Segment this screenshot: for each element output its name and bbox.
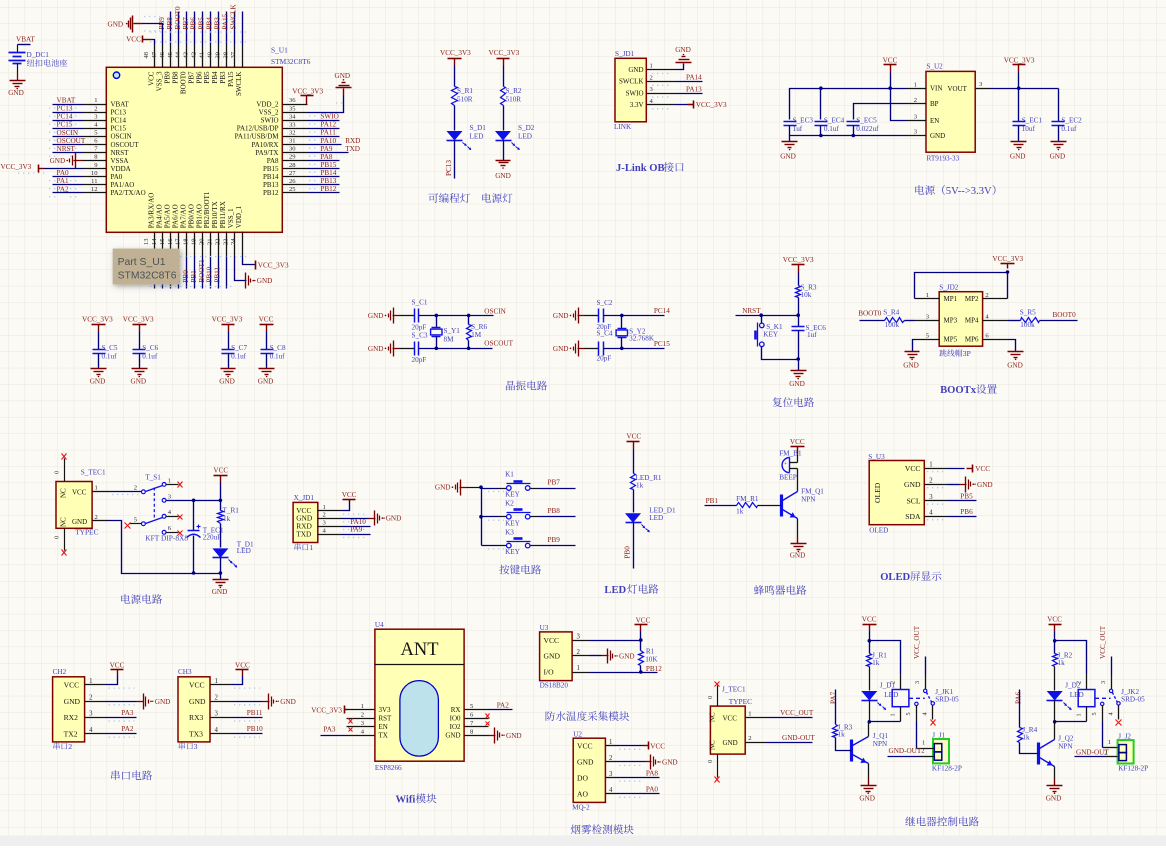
ground right of U4 — [494, 728, 496, 744]
svg-text:VBAT: VBAT — [111, 100, 130, 108]
svg-text:1: 1 — [889, 713, 896, 716]
svg-text:3P: 3P — [963, 349, 972, 358]
CH3 pin 1 VCC — [211, 684, 232, 686]
resistor S_R1 510R — [452, 87, 458, 106]
MCU U1 right pin 25 PB12 — [283, 192, 308, 194]
svg-text:PA0: PA0 — [646, 786, 659, 794]
svg-text:100k: 100k — [1020, 321, 1035, 329]
svg-text:S_C5: S_C5 — [102, 344, 118, 352]
MCU U1 top pin 47 VSS_3 — [162, 45, 164, 68]
U2 pin 4 AO — [606, 793, 617, 795]
S_JD2 pins 1/2 — [915, 298, 940, 300]
svg-text:S_TEC1: S_TEC1 — [81, 468, 106, 476]
wire — [905, 320, 915, 322]
svg-text:GND: GND — [189, 697, 206, 706]
section title 防水温度采集模块 — [546, 711, 555, 721]
svg-text:GND: GND — [628, 66, 643, 74]
J_TEC1 top stub — [717, 686, 719, 707]
svg-text:GND: GND — [335, 72, 351, 80]
svg-text:J-Link OB: J-Link OB — [616, 163, 665, 174]
svg-text:PA8: PA8 — [320, 153, 333, 161]
capacitor T_EC1 220uF polarized — [193, 501, 195, 531]
svg-text:GND: GND — [930, 132, 945, 140]
svg-text:PA11/USB/DM: PA11/USB/DM — [235, 133, 280, 141]
svg-text:S_R1: S_R1 — [457, 87, 473, 95]
wire with net label PA1 — [53, 184, 83, 186]
svg-text:VIN: VIN — [930, 85, 942, 93]
svg-text:VCC: VCC — [342, 491, 357, 499]
ground — [791, 543, 807, 545]
svg-text:SWIO: SWIO — [626, 89, 644, 97]
wire pin4 PA0 — [617, 793, 660, 795]
wire — [226, 257, 228, 289]
svg-text:OLED: OLED — [869, 527, 888, 535]
svg-text:4: 4 — [215, 727, 219, 734]
wire pin2 to GND — [232, 701, 263, 703]
wire — [633, 523, 635, 569]
ground below J_Q1 — [861, 785, 877, 787]
svg-text:3: 3 — [215, 711, 219, 718]
svg-text:RX: RX — [451, 706, 461, 714]
svg-text:T_S1: T_S1 — [145, 474, 161, 482]
svg-text:PA15: PA15 — [221, 13, 229, 29]
svg-text:MP6: MP6 — [965, 336, 979, 344]
svg-text:VCC: VCC — [790, 438, 805, 446]
svg-text:PB3: PB3 — [214, 17, 222, 30]
svg-text:1k: 1k — [1022, 733, 1030, 741]
svg-text:16: 16 — [167, 238, 174, 245]
wire base resistor — [835, 690, 837, 725]
MCU U1 left pin 11 PA1/AO — [83, 184, 107, 186]
wire GND-OUT — [766, 742, 813, 744]
wire contact5 down — [1102, 706, 1104, 722]
svg-text:2: 2 — [889, 681, 896, 684]
svg-text:2: 2 — [1075, 681, 1082, 684]
svg-text:BOOT0: BOOT0 — [174, 6, 182, 30]
wire — [178, 257, 180, 289]
ground right of U3 — [607, 649, 609, 664]
svg-text:SWCLK: SWCLK — [235, 72, 243, 97]
ground — [1011, 141, 1027, 143]
svg-text:LED: LED — [604, 585, 626, 596]
svg-text:0.1uf: 0.1uf — [270, 353, 286, 361]
wire — [226, 12, 228, 45]
svg-text:BOOTx: BOOTx — [940, 385, 977, 396]
wire — [162, 257, 164, 289]
svg-text:GND: GND — [544, 652, 561, 661]
svg-text:GND: GND — [1050, 153, 1066, 161]
svg-text:PB6: PB6 — [190, 17, 198, 30]
wire contact5 down — [916, 706, 918, 722]
svg-text:GND: GND — [1010, 153, 1026, 161]
svg-text:VCC_3V3: VCC_3V3 — [123, 316, 154, 324]
svg-text:5: 5 — [905, 712, 912, 715]
svg-text:GND: GND — [386, 515, 402, 523]
MCU U1 top pin 45 PB8 — [178, 45, 180, 68]
svg-text:S_R5: S_R5 — [1020, 308, 1036, 316]
relay J_JK2 SRD-05 coil — [1086, 674, 1088, 690]
svg-text:PA5/AO: PA5/AO — [164, 204, 172, 228]
svg-text:TXD: TXD — [345, 145, 360, 153]
svg-text:OSCIN: OSCIN — [484, 308, 506, 316]
svg-text:20pF: 20pF — [597, 354, 612, 362]
svg-text:3: 3 — [914, 681, 921, 684]
svg-text:PB10: PB10 — [206, 266, 214, 282]
wire — [220, 483, 222, 501]
svg-text:RXD: RXD — [345, 137, 360, 145]
wire — [210, 12, 212, 45]
svg-text:PB11: PB11 — [214, 266, 222, 282]
svg-text:10: 10 — [91, 170, 98, 177]
wire with net label PB12 — [308, 192, 340, 194]
ground left of S_C1 — [385, 315, 387, 317]
S_U2 pin 3 VOUT — [976, 88, 990, 90]
wire with net label NRST — [53, 152, 83, 154]
svg-text:1: 1 — [361, 703, 364, 710]
svg-text:U4: U4 — [375, 621, 384, 629]
svg-text:PA14: PA14 — [686, 74, 702, 82]
wire — [202, 257, 204, 289]
wire — [789, 126, 791, 136]
wire coil bottom rail — [1055, 721, 1087, 723]
section title 串口电路 — [111, 770, 120, 780]
wire pin1 to VCC — [106, 676, 118, 685]
svg-text:1uf: 1uf — [793, 125, 803, 133]
wire GND rail — [790, 136, 907, 142]
svg-text:510R: 510R — [506, 96, 522, 104]
MCU U1 top pin 41 PB5 — [210, 45, 212, 68]
svg-text:32: 32 — [289, 130, 296, 137]
svg-text:1: 1 — [215, 678, 218, 685]
svg-text:GND: GND — [64, 697, 81, 706]
wire — [798, 273, 800, 286]
LED T_D1 — [220, 524, 222, 548]
ground left of S_C3 — [385, 348, 387, 350]
svg-text:PA12: PA12 — [320, 121, 336, 129]
svg-text:1k: 1k — [872, 659, 880, 667]
svg-text:46: 46 — [159, 51, 166, 58]
X_JD1 pin 1 VCC — [318, 510, 342, 512]
svg-text:OLED: OLED — [873, 482, 882, 503]
MCU U1 bottom pin 17 PA7/AO — [186, 232, 188, 257]
svg-text:VCC: VCC — [213, 467, 228, 475]
wire with net label PA14 — [675, 81, 703, 83]
svg-text:PB5: PB5 — [198, 17, 206, 30]
svg-text:1: 1 — [94, 97, 97, 104]
svg-text:2: 2 — [134, 485, 137, 492]
svg-text:S_U1: S_U1 — [271, 46, 288, 55]
svg-text:PB12: PB12 — [646, 665, 662, 673]
MCU U1 bottom pin 24 VDD_1 — [242, 232, 244, 257]
svg-text:S_C3: S_C3 — [412, 332, 428, 340]
svg-text:AO: AO — [577, 790, 588, 799]
resistor S_R4 100k — [885, 318, 905, 323]
wire VCC_OUT — [925, 657, 927, 675]
svg-text:30: 30 — [289, 146, 296, 153]
svg-text:42: 42 — [191, 52, 198, 59]
J_TEC1 bottom stub — [717, 755, 719, 778]
svg-text:OSCOUT: OSCOUT — [111, 141, 140, 149]
svg-text:GND: GND — [1046, 795, 1062, 803]
svg-text:PA3: PA3 — [121, 709, 134, 717]
wire — [482, 545, 499, 547]
wire — [869, 701, 871, 722]
ground below S_EC3 — [782, 141, 798, 143]
wire EN connection — [891, 89, 907, 121]
svg-text:VCC_3V3: VCC_3V3 — [1004, 56, 1035, 64]
wire — [242, 12, 244, 45]
U4 pin 2 RST — [347, 718, 375, 720]
power VCC right of U2 — [648, 742, 650, 750]
wire pin3 PA3 — [106, 717, 137, 719]
wire with net label SWIO — [308, 120, 340, 122]
capacitor S_C1 20pF — [414, 309, 416, 323]
svg-text:GND: GND — [108, 21, 124, 29]
MCU U1 right pin 28 PB15 — [283, 168, 308, 170]
svg-text:GND: GND — [553, 312, 569, 320]
wire — [139, 332, 141, 350]
ground below MP5 — [905, 351, 920, 353]
resistor S_R3 10k — [796, 286, 801, 298]
svg-text:S_C1: S_C1 — [412, 299, 428, 307]
wire — [860, 320, 885, 322]
svg-text:OSCOUT: OSCOUT — [57, 137, 86, 145]
wire with net label PA13 — [675, 93, 703, 95]
svg-text:VCC: VCC — [883, 56, 898, 64]
ground — [791, 370, 807, 372]
svg-text:PB14: PB14 — [320, 169, 336, 177]
push button K3 KEY — [507, 543, 512, 548]
CH2 pin 2 GND — [85, 701, 106, 703]
svg-text:PB12: PB12 — [320, 185, 336, 193]
capacitor S_C3 20pF — [414, 342, 416, 356]
wire to PB9 — [531, 545, 539, 547]
ground right of U2 — [650, 755, 652, 770]
svg-text:2: 2 — [323, 512, 326, 519]
svg-text:0.1uf: 0.1uf — [1061, 125, 1077, 133]
svg-text:EN: EN — [379, 723, 388, 731]
svg-text:FM_B1: FM_B1 — [779, 450, 802, 458]
wire collector — [869, 721, 871, 723]
svg-text:S_U2: S_U2 — [926, 63, 943, 71]
svg-text:GND: GND — [445, 732, 460, 740]
svg-text:FM_R1: FM_R1 — [736, 495, 759, 503]
section title 烟雾检测模块 — [571, 824, 581, 834]
svg-text:VCC: VCC — [862, 616, 877, 624]
svg-text:1: 1 — [748, 711, 751, 718]
svg-text:PC13: PC13 — [111, 109, 127, 117]
svg-text:VBAT: VBAT — [57, 97, 76, 105]
svg-text:1k: 1k — [736, 508, 744, 516]
CH2 pin 3 RX2 — [85, 717, 106, 719]
svg-text:PA7: PA7 — [830, 691, 838, 704]
svg-text:VCC: VCC — [259, 316, 274, 324]
svg-text:VCC: VCC — [636, 617, 651, 625]
svg-text:T_R1: T_R1 — [223, 506, 240, 514]
wire pin2 to GND — [948, 484, 960, 486]
svg-text:PC15: PC15 — [111, 125, 127, 133]
svg-text:PA2: PA2 — [497, 701, 510, 709]
wire to GND — [675, 64, 684, 70]
svg-text:S_D2: S_D2 — [518, 124, 535, 132]
svg-text:VCC_OUT: VCC_OUT — [780, 709, 814, 717]
MCU U1 bottom pin 16 PA6/AO — [178, 232, 180, 257]
svg-text:VCC: VCC — [905, 464, 921, 473]
svg-text:14: 14 — [151, 238, 158, 245]
wire pin3 PA10 — [342, 526, 371, 528]
svg-text:GND: GND — [280, 698, 296, 706]
svg-text:3: 3 — [577, 633, 581, 640]
svg-text:PC14: PC14 — [654, 307, 670, 315]
svg-text:GND: GND — [977, 481, 993, 489]
MCU U1 left pin 8 VSSA — [83, 160, 107, 162]
wire VOUT rail — [990, 88, 1059, 90]
U3 pin 2 GND — [573, 655, 590, 657]
svg-text:VBAT: VBAT — [16, 36, 35, 44]
svg-text:PB9: PB9 — [548, 536, 561, 544]
svg-text:1k: 1k — [838, 731, 846, 739]
LED LED_D1 — [625, 513, 641, 523]
svg-text:44: 44 — [175, 51, 182, 58]
svg-text:0.1uf: 0.1uf — [231, 353, 247, 361]
wire EC4 top — [820, 89, 822, 120]
svg-text:PC14: PC14 — [111, 117, 127, 125]
svg-text:20: 20 — [199, 238, 206, 245]
svg-text:GND: GND — [577, 758, 594, 767]
wire with net label PA2 — [53, 192, 83, 194]
wire with net label PC13 — [53, 112, 83, 114]
svg-text:PA10: PA10 — [320, 137, 336, 145]
svg-text:GND: GND — [1007, 362, 1023, 370]
wire base resistor — [1019, 690, 1021, 728]
wire pin3 PB5 — [948, 500, 977, 502]
svg-text:2: 2 — [361, 711, 364, 718]
svg-text:KF128-2P: KF128-2P — [932, 765, 962, 773]
wire — [186, 257, 188, 289]
svg-text:PA0: PA0 — [57, 169, 70, 177]
svg-text:X_JD1: X_JD1 — [294, 494, 315, 502]
svg-text:FM_Q1: FM_Q1 — [801, 488, 824, 496]
svg-text:VCC_OUT: VCC_OUT — [913, 625, 921, 659]
svg-text:1k: 1k — [223, 515, 231, 523]
wire — [1018, 126, 1020, 142]
svg-text:GND: GND — [789, 380, 805, 388]
svg-text:MP5: MP5 — [944, 336, 958, 344]
svg-text:1: 1 — [914, 81, 917, 88]
wire — [170, 257, 172, 289]
svg-text:NC: NC — [60, 517, 68, 527]
wire loop pin1-pin2-VCC — [915, 273, 1008, 299]
ground left of S_C2 — [570, 315, 572, 317]
U4 pin 7 IO2 — [465, 726, 489, 728]
S_U3 pin 4 SDA — [925, 516, 948, 518]
wire — [454, 106, 456, 131]
section title 继电器控制电路 — [905, 817, 915, 827]
svg-text:VCC_3V3: VCC_3V3 — [783, 256, 814, 264]
MCU U1 top pin 46 PB9 — [170, 45, 172, 68]
svg-text:NC: NC — [709, 740, 717, 750]
svg-text:PB4: PB4 — [211, 71, 219, 84]
resistor S_R5 100k — [1021, 318, 1040, 323]
svg-text:10uf: 10uf — [1022, 125, 1036, 133]
wire VCC_OUT — [766, 717, 813, 719]
svg-text:BOOT0: BOOT0 — [858, 310, 882, 318]
svg-text:VCC_OUT: VCC_OUT — [1099, 625, 1107, 659]
MCU U1 top pin 39 PB3 — [226, 45, 228, 68]
svg-text:GND: GND — [155, 698, 171, 706]
svg-text:1: 1 — [922, 740, 925, 747]
MCU U1 bottom pin 19 PB1/AO — [202, 232, 204, 257]
svg-text:VDDA: VDDA — [111, 165, 131, 173]
svg-text:37: 37 — [230, 51, 237, 58]
power VCC right of S_U3 — [972, 465, 974, 473]
wire — [220, 574, 222, 580]
svg-text:4: 4 — [89, 727, 93, 734]
svg-text:31: 31 — [289, 138, 296, 145]
wire to PB8 — [531, 516, 539, 518]
svg-text:DS18B20: DS18B20 — [540, 682, 569, 690]
svg-text:PB13: PB13 — [263, 181, 279, 189]
svg-text:38: 38 — [222, 51, 229, 58]
wire — [218, 257, 220, 289]
svg-text:OSCIN: OSCIN — [111, 133, 132, 141]
svg-text:510R: 510R — [457, 96, 473, 104]
svg-text:PB13: PB13 — [320, 177, 336, 185]
MCU U1 left pin 6 OSCOUT — [83, 144, 107, 146]
svg-text:PA2: PA2 — [121, 725, 134, 733]
wire pin1 to VCC — [948, 468, 965, 470]
wire — [139, 354, 141, 369]
svg-text:PB0: PB0 — [182, 270, 190, 283]
section title 蜂鸣器电路 — [754, 585, 764, 595]
svg-text:EN: EN — [930, 117, 939, 125]
svg-text:PB0/AO: PB0/AO — [187, 204, 195, 228]
svg-text:VCC_3V3: VCC_3V3 — [696, 101, 727, 109]
bottom bar — [0, 836, 1166, 847]
svg-text:S_Y1: S_Y1 — [444, 327, 461, 335]
svg-text:SWIO: SWIO — [261, 117, 279, 125]
svg-text:VSSA: VSSA — [111, 157, 129, 165]
MCU U1 top pin 43 PB7 — [194, 45, 196, 68]
wire — [454, 141, 456, 179]
svg-text:SWCLK: SWCLK — [619, 78, 644, 86]
svg-text:1: 1 — [650, 63, 653, 70]
svg-text:SWIO: SWIO — [320, 113, 338, 121]
svg-text:PA9/TX: PA9/TX — [255, 149, 278, 157]
CH3 pin 4 TX3 — [211, 733, 232, 735]
svg-text:34: 34 — [289, 113, 296, 120]
wire pin4 PB10 — [232, 733, 263, 735]
svg-text:PB1/AO: PB1/AO — [195, 204, 203, 228]
capacitor S_C4 20pF — [598, 342, 600, 356]
svg-text:D_DC1: D_DC1 — [27, 51, 50, 59]
X_JD1 pin 4 TXD — [318, 534, 342, 536]
svg-text:GND: GND — [780, 153, 796, 161]
crystal S_Y1 8M — [436, 316, 438, 328]
svg-text:41: 41 — [199, 52, 206, 59]
wire — [482, 488, 499, 490]
wire PC15 — [604, 348, 665, 350]
svg-text:PA2: PA2 — [57, 185, 70, 193]
svg-text:PA1: PA1 — [57, 177, 70, 185]
U2 pin 3 DO — [606, 777, 617, 779]
power VCC_3V3 at MCU pin 24 — [255, 261, 257, 270]
svg-text:RX3: RX3 — [189, 713, 204, 722]
svg-text:GND: GND — [662, 759, 678, 767]
svg-text:MP2: MP2 — [965, 295, 979, 303]
svg-text:2: 2 — [577, 649, 581, 656]
svg-text:VCC_3V3: VCC_3V3 — [82, 316, 113, 324]
